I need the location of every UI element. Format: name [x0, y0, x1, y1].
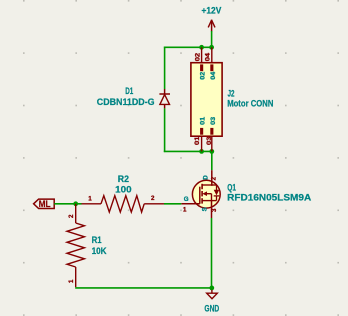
- wire top horizontal: [164, 46, 212, 48]
- svg-text:02: 02: [194, 52, 201, 61]
- J2 pin 2 (top-left): [200, 47, 203, 71]
- svg-text:04: 04: [210, 71, 217, 80]
- svg-text:01: 01: [194, 136, 201, 145]
- svg-text:D1: D1: [125, 86, 133, 96]
- svg-text:100: 100: [115, 185, 131, 195]
- J2 pin 1 (bottom-left): [200, 128, 203, 151]
- svg-text:03: 03: [206, 136, 213, 145]
- svg-text:R1: R1: [92, 235, 102, 245]
- svg-text:G: G: [184, 196, 189, 203]
- svg-text:3: 3: [211, 208, 218, 212]
- junction top pin2: [199, 45, 204, 50]
- wire drain vertical: [211, 151, 213, 170]
- ground: [207, 290, 218, 299]
- junction ML node: [73, 201, 78, 206]
- svg-text:2: 2: [151, 195, 155, 202]
- svg-text:ML: ML: [39, 199, 51, 209]
- svg-text:2: 2: [210, 176, 217, 180]
- resistor R1: [67, 204, 84, 287]
- wire +12V stem: [211, 31, 213, 47]
- transistor Q1: [181, 170, 220, 218]
- svg-text:1: 1: [88, 195, 92, 202]
- junction GND node: [209, 286, 214, 291]
- svg-text:D: D: [202, 175, 209, 180]
- wire bottom connector horizontal: [164, 150, 212, 152]
- wire R1 bottom corner: [75, 287, 212, 289]
- svg-text:Motor CONN: Motor CONN: [227, 99, 273, 109]
- svg-text:04: 04: [205, 52, 212, 61]
- svg-text:S: S: [202, 207, 209, 211]
- svg-text:10K: 10K: [92, 246, 107, 256]
- svg-text:01: 01: [199, 116, 206, 125]
- wire left rail upper: [164, 47, 166, 90]
- svg-text:03: 03: [210, 116, 217, 125]
- svg-text:1: 1: [68, 279, 75, 283]
- wire Q1 source vertical: [211, 218, 213, 288]
- svg-text:CDBN11DD-G: CDBN11DD-G: [97, 97, 155, 107]
- svg-text:R2: R2: [118, 174, 129, 184]
- wire to GND: [211, 288, 213, 291]
- svg-text:1: 1: [183, 206, 187, 213]
- connector J2 body: [191, 63, 222, 137]
- svg-text:02: 02: [199, 71, 206, 80]
- svg-text:2: 2: [68, 214, 75, 218]
- power +12V: [202, 6, 222, 32]
- resistor R2: [82, 196, 165, 212]
- svg-text:RFD16N05LSM9A: RFD16N05LSM9A: [227, 193, 312, 203]
- J2 pin 4 (top-right): [210, 47, 213, 71]
- svg-text:GND: GND: [204, 303, 219, 313]
- wire R2 to Q1 gate: [164, 203, 181, 205]
- junction bottom pin1: [199, 149, 204, 154]
- wire ML to junction: [54, 203, 81, 205]
- global label ML: [34, 199, 55, 209]
- svg-text:Q1: Q1: [227, 183, 236, 193]
- diode D1: [159, 89, 170, 108]
- svg-text:+12V: +12V: [202, 6, 222, 16]
- svg-text:J2: J2: [228, 89, 235, 99]
- wire left rail lower: [164, 108, 166, 152]
- J2 pin 3 (bottom-right): [210, 128, 213, 151]
- junction bottom pin3: [209, 149, 214, 154]
- junction top pin4: [209, 45, 214, 50]
